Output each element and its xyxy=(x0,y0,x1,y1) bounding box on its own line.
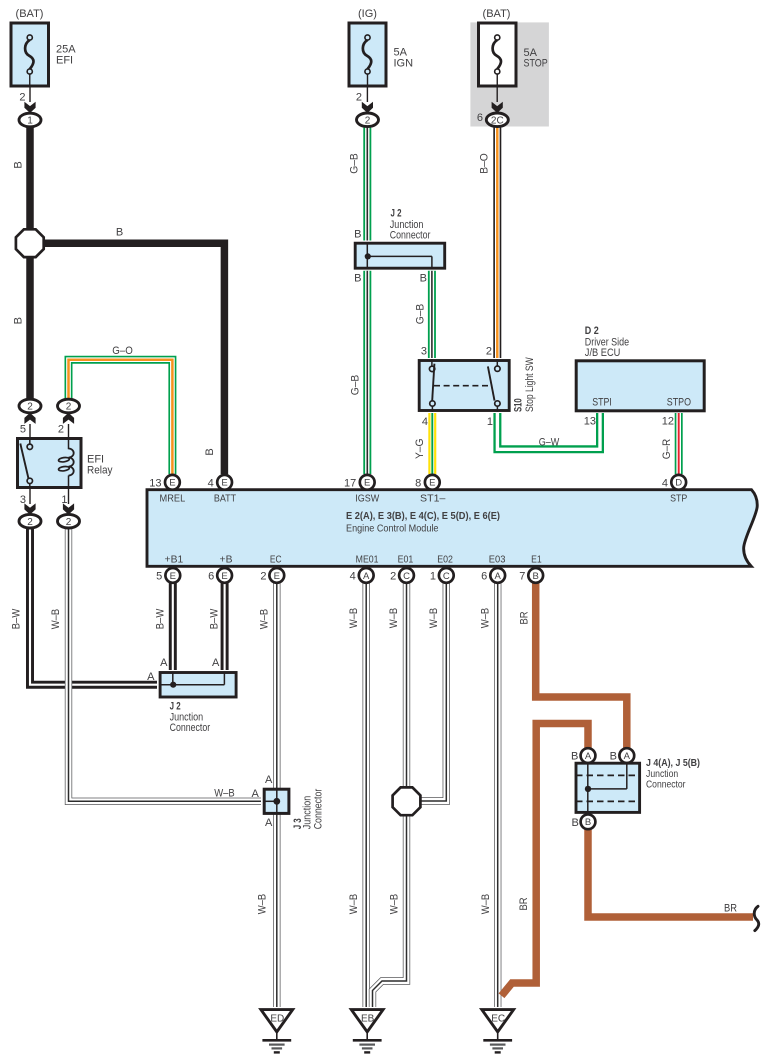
svg-text:B–W: B–W xyxy=(155,608,167,629)
label B (node to relay drop) xyxy=(13,317,25,324)
S10 pin 4 label xyxy=(422,416,428,428)
svg-text:2C: 2C xyxy=(491,116,504,127)
continuation squiggle xyxy=(754,906,759,930)
svg-text:2: 2 xyxy=(356,92,362,104)
node octagon splice E01/E02 xyxy=(393,787,421,815)
svg-text:C: C xyxy=(403,571,410,582)
svg-text:5: 5 xyxy=(156,571,162,583)
svg-text:A: A xyxy=(585,751,592,762)
svg-text:EB: EB xyxy=(361,1013,375,1024)
relay pin 1 connector xyxy=(58,489,80,528)
svg-text:E: E xyxy=(169,478,175,489)
label B below J2 right xyxy=(420,272,427,284)
EFI relay xyxy=(18,437,113,489)
label G-B (IG drop) xyxy=(349,153,361,174)
svg-text:Connector: Connector xyxy=(646,779,686,791)
svg-text:A: A xyxy=(495,571,502,582)
label G-R xyxy=(661,439,673,460)
wire Y-G S10 pin4 to ST1- xyxy=(428,413,436,474)
svg-text:E: E xyxy=(221,478,227,489)
driver side J/B ECU D2 xyxy=(576,325,704,411)
wire B node to EFI relay xyxy=(26,256,34,399)
label G-W xyxy=(539,437,560,449)
svg-text:2: 2 xyxy=(66,517,72,528)
D2 pin 12 label xyxy=(662,416,674,428)
svg-text:W–B: W–B xyxy=(257,894,269,915)
svg-text:1: 1 xyxy=(487,416,493,428)
label A above J3 xyxy=(265,774,273,786)
label W-B (above EB right) xyxy=(388,894,400,915)
ECM pin 5 E +B1 xyxy=(156,568,180,583)
svg-text:(BAT): (BAT) xyxy=(16,8,44,20)
wire BR J4 pin A to EC ground xyxy=(502,724,589,996)
connector node 2C xyxy=(486,113,508,127)
svg-text:B: B xyxy=(571,750,578,762)
svg-text:2: 2 xyxy=(58,424,64,436)
J4 pin A left connector xyxy=(571,748,595,763)
ECM pin 2 E EC xyxy=(260,568,284,583)
svg-text:E02: E02 xyxy=(437,553,453,565)
svg-text:IGSW: IGSW xyxy=(355,493,379,505)
ECM pin 4 D STP xyxy=(662,475,686,490)
junction connector J3 xyxy=(263,788,325,829)
ground EB xyxy=(351,1010,383,1053)
svg-text:G–O: G–O xyxy=(112,345,133,357)
svg-text:B: B xyxy=(204,448,216,455)
label Y-G xyxy=(414,439,426,460)
fuse 5A STOP xyxy=(470,8,549,126)
D2 pin 13 label xyxy=(584,416,596,428)
label B (fuse drop) xyxy=(13,161,25,168)
svg-text:2: 2 xyxy=(19,92,25,104)
wire G-B J2 to IGSW xyxy=(363,271,371,474)
relay pin 3 connector xyxy=(19,489,41,528)
svg-text:A: A xyxy=(251,788,259,800)
svg-text:1: 1 xyxy=(430,571,436,583)
svg-text:W–B: W–B xyxy=(50,609,62,630)
svg-text:2: 2 xyxy=(486,345,492,357)
svg-text:A: A xyxy=(212,657,220,669)
wire BR E1 to J4 pin A xyxy=(536,583,627,750)
svg-text:STP: STP xyxy=(670,493,687,505)
ECM pin 4 E BATT xyxy=(208,475,232,490)
ECM pin 7 B E1 xyxy=(519,568,543,583)
svg-text:ME01: ME01 xyxy=(356,553,379,565)
svg-text:1: 1 xyxy=(61,494,67,506)
svg-text:2: 2 xyxy=(365,116,371,127)
svg-text:ST1–: ST1– xyxy=(420,493,445,505)
label A left of J3 xyxy=(251,788,259,800)
wire G-W S10 pin1 to D2 STPI xyxy=(497,413,600,449)
label BR (E1 drop) xyxy=(519,611,531,624)
svg-text:+B: +B xyxy=(220,553,233,565)
ECM top pin labels xyxy=(160,493,688,505)
wire G-B IGN fuse to J2 junction xyxy=(363,127,371,241)
label W-B (above EC) xyxy=(480,894,492,915)
svg-text:B: B xyxy=(116,227,123,239)
ECM pin 2 C E01 xyxy=(390,568,414,583)
label W-B (EC drop) xyxy=(259,609,271,630)
wire G-O relay to MREL xyxy=(69,360,173,474)
ground ED xyxy=(261,1010,293,1053)
label W-B (above ED) xyxy=(257,894,269,915)
svg-text:A: A xyxy=(147,671,155,683)
svg-text:B: B xyxy=(585,817,591,828)
svg-text:J 2: J 2 xyxy=(391,207,402,219)
svg-text:BR: BR xyxy=(518,897,530,910)
ECM pin 6 A E03 xyxy=(481,568,505,583)
svg-text:A: A xyxy=(265,774,273,786)
svg-text:BR: BR xyxy=(519,611,531,624)
svg-text:4: 4 xyxy=(662,477,668,489)
svg-text:2: 2 xyxy=(27,517,33,528)
label G-B (S10 branch) xyxy=(415,304,427,325)
svg-text:W–B: W–B xyxy=(348,894,360,915)
svg-text:4: 4 xyxy=(350,571,356,583)
svg-text:C: C xyxy=(443,571,450,582)
label B-W (+B1 drop) xyxy=(155,608,167,629)
wire xyxy=(29,86,31,102)
S10 pin 1 label xyxy=(487,416,493,428)
ECM pin 17 E IGSW xyxy=(344,475,375,490)
svg-text:(BAT): (BAT) xyxy=(483,8,511,20)
junction connector J4/J5 xyxy=(576,757,700,813)
svg-text:13: 13 xyxy=(584,416,596,428)
connector node 2 xyxy=(357,113,379,127)
wire G-B J2 to S10 pin3 xyxy=(428,271,436,358)
wire W-B ME01 to EB ground xyxy=(363,583,370,1008)
ECM bottom pin labels xyxy=(165,553,542,565)
label B above J2 xyxy=(354,228,361,240)
ECM pin 4 A ME01 xyxy=(350,568,374,583)
junction connector J2 (ignition) xyxy=(355,207,445,269)
connector 2 above relay pin5 xyxy=(19,399,41,437)
wire B fuse to node xyxy=(26,127,34,231)
svg-text:B–W: B–W xyxy=(209,608,221,629)
svg-text:E 2(A), E 3(B), E 4(C), E 5(D): E 2(A), E 3(B), E 4(C), E 5(D), E 6(E) xyxy=(346,510,500,522)
label A below J3 xyxy=(265,817,273,829)
svg-text:MREL: MREL xyxy=(160,493,186,505)
svg-text:1: 1 xyxy=(27,116,33,127)
label G-B (IGSW drop) xyxy=(349,375,361,396)
svg-text:B: B xyxy=(13,161,25,168)
svg-text:E03: E03 xyxy=(489,553,506,565)
svg-text:EC: EC xyxy=(491,1013,505,1024)
label W-B (relay drop) xyxy=(50,609,62,630)
svg-text:EC: EC xyxy=(270,553,282,565)
label W-B (E03 drop) xyxy=(479,608,491,629)
fuse 5A IGN xyxy=(349,8,413,102)
svg-text:Y–G: Y–G xyxy=(414,439,426,460)
pin 2 label and arrow below EFI fuse xyxy=(19,92,35,114)
svg-text:B: B xyxy=(571,817,578,829)
label B-O xyxy=(479,153,491,174)
svg-text:W–B: W–B xyxy=(480,894,492,915)
svg-text:3: 3 xyxy=(421,345,427,357)
wire W-B E01 to EB ground xyxy=(373,583,407,1008)
svg-text:4: 4 xyxy=(422,416,428,428)
svg-text:B–O: B–O xyxy=(479,153,491,174)
J4 pin B bottom connector xyxy=(571,814,595,829)
svg-text:E01: E01 xyxy=(398,553,414,565)
label W-B (E01 drop) xyxy=(388,608,400,629)
label B-W (relay drop) xyxy=(11,608,23,629)
S10 pin 3 label xyxy=(421,345,427,357)
ECM pin 6 E +B xyxy=(208,568,232,583)
svg-text:STPI: STPI xyxy=(592,397,612,409)
svg-text:4: 4 xyxy=(208,477,214,489)
label BR (bottom right) xyxy=(724,903,737,915)
svg-text:+B1: +B1 xyxy=(165,553,184,565)
connector 2 above relay pin2 xyxy=(58,399,80,437)
svg-text:B: B xyxy=(420,272,427,284)
svg-text:EFI: EFI xyxy=(56,54,73,66)
svg-text:(IG): (IG) xyxy=(358,8,377,20)
wire W-B E02 to node xyxy=(421,583,446,802)
wire B-O STOP fuse to S10 pin2 xyxy=(493,126,501,358)
wire W-B relay pin1 to J3 xyxy=(69,528,262,802)
label B (BATT drop) xyxy=(204,448,216,455)
svg-text:6: 6 xyxy=(481,571,487,583)
label A at J2 +B wire xyxy=(212,657,220,669)
label W-B (to J3 horizontal) xyxy=(214,787,235,799)
wire B-W +B1 to J2 xyxy=(169,583,177,671)
svg-text:6: 6 xyxy=(208,571,214,583)
svg-text:B: B xyxy=(533,571,539,582)
svg-text:G–B: G–B xyxy=(415,304,427,325)
svg-text:A: A xyxy=(363,571,370,582)
svg-text:B–W: B–W xyxy=(11,608,23,629)
svg-text:W–B: W–B xyxy=(348,608,360,629)
svg-text:B: B xyxy=(610,750,617,762)
label B-W (+B drop) xyxy=(209,608,221,629)
svg-text:2: 2 xyxy=(390,571,396,583)
wire B node to BATT xyxy=(42,243,224,474)
fuse 25A EFI xyxy=(11,8,76,87)
svg-text:W–B: W–B xyxy=(388,894,400,915)
svg-text:Stop Light SW: Stop Light SW xyxy=(524,357,536,412)
svg-text:2: 2 xyxy=(27,402,33,413)
S10 pin 2 label xyxy=(486,345,492,357)
svg-text:A: A xyxy=(160,657,168,669)
ground EC xyxy=(482,1010,514,1053)
svg-text:E: E xyxy=(221,571,227,582)
label BR (left drop) xyxy=(518,897,530,910)
ECM pin 13 E MREL xyxy=(149,475,180,490)
label G-O xyxy=(112,345,133,357)
svg-text:BATT: BATT xyxy=(214,493,237,505)
svg-text:Engine Control Module: Engine Control Module xyxy=(346,523,439,535)
svg-text:G–B: G–B xyxy=(349,375,361,396)
svg-text:E1: E1 xyxy=(531,553,542,565)
svg-text:7: 7 xyxy=(519,571,525,583)
svg-text:2: 2 xyxy=(66,402,72,413)
svg-text:D: D xyxy=(675,478,682,489)
svg-text:Relay: Relay xyxy=(87,464,113,476)
wire BR J4 pin B to right xyxy=(588,828,753,917)
svg-text:E: E xyxy=(364,478,370,489)
wire B-W +B to J2 xyxy=(221,583,229,671)
svg-text:J/B ECU: J/B ECU xyxy=(585,347,621,359)
svg-text:A: A xyxy=(624,751,631,762)
svg-text:G–W: G–W xyxy=(539,437,560,449)
svg-text:B: B xyxy=(13,317,25,324)
svg-text:B: B xyxy=(354,272,361,284)
svg-text:E: E xyxy=(274,571,280,582)
pin 2 label and arrow below IGN fuse xyxy=(356,92,373,114)
svg-text:Connector: Connector xyxy=(170,722,211,734)
svg-text:W–B: W–B xyxy=(428,608,440,629)
label W-B (E02 drop) xyxy=(428,608,440,629)
svg-text:G–R: G–R xyxy=(661,439,673,460)
svg-text:Connector: Connector xyxy=(313,788,325,829)
svg-text:B: B xyxy=(354,228,361,240)
svg-text:6: 6 xyxy=(477,112,483,124)
svg-text:5: 5 xyxy=(20,424,26,436)
svg-text:13: 13 xyxy=(149,477,161,489)
svg-text:W–B: W–B xyxy=(214,787,235,799)
svg-text:Connector: Connector xyxy=(390,230,431,242)
svg-text:STPO: STPO xyxy=(667,397,692,409)
svg-text:E: E xyxy=(170,571,176,582)
svg-text:17: 17 xyxy=(344,477,356,489)
svg-text:S10: S10 xyxy=(513,398,525,412)
svg-text:12: 12 xyxy=(662,416,674,428)
svg-text:STOP: STOP xyxy=(524,57,548,69)
label W-B (above EB left) xyxy=(348,894,360,915)
label B below J2 left xyxy=(354,272,361,284)
svg-text:W–B: W–B xyxy=(479,608,491,629)
wire B-W relay pin3 to J2 xyxy=(30,528,157,685)
svg-text:8: 8 xyxy=(415,477,421,489)
svg-text:BR: BR xyxy=(724,903,737,915)
wire G-R D2 STPO to STP xyxy=(675,413,683,474)
wire W-B EC through J3 to ED ground xyxy=(273,583,280,1008)
label B (node to BATT horizontal) xyxy=(116,227,123,239)
junction connector J2 (power) xyxy=(159,672,236,734)
label A at J2 left wire xyxy=(147,671,155,683)
connector node 1 xyxy=(19,113,41,127)
svg-text:ED: ED xyxy=(270,1013,284,1024)
svg-text:D 2: D 2 xyxy=(585,325,599,337)
wire W-B E03 to EC ground xyxy=(494,583,501,1008)
svg-text:IGN: IGN xyxy=(394,57,414,69)
svg-text:2: 2 xyxy=(260,571,266,583)
node octagon splice xyxy=(16,229,44,257)
ECM pin 8 E ST1- xyxy=(415,475,440,490)
J4 pin A right connector xyxy=(610,748,635,763)
svg-text:A: A xyxy=(265,817,273,829)
label W-B (ME01 drop) xyxy=(348,608,360,629)
svg-text:G–B: G–B xyxy=(349,153,361,174)
svg-text:W–B: W–B xyxy=(259,609,271,630)
svg-text:E: E xyxy=(429,478,435,489)
svg-text:W–B: W–B xyxy=(388,608,400,629)
pin 6 label and arrow below STOP fuse xyxy=(477,102,503,124)
ECM pin 1 C E02 xyxy=(430,568,454,583)
label A at J2 +B1 wire xyxy=(160,657,168,669)
engine control module ECM xyxy=(147,490,757,567)
stop light switch S10 xyxy=(419,357,536,412)
